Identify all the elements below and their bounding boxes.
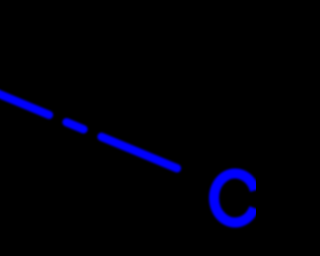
bond segment 1 (long dash entering from left edge): [0, 91, 49, 115]
atom label C: [214, 173, 255, 222]
bond dash (short middle dash): [67, 122, 84, 129]
bond segment 2 (long dash to atom): [102, 137, 178, 169]
